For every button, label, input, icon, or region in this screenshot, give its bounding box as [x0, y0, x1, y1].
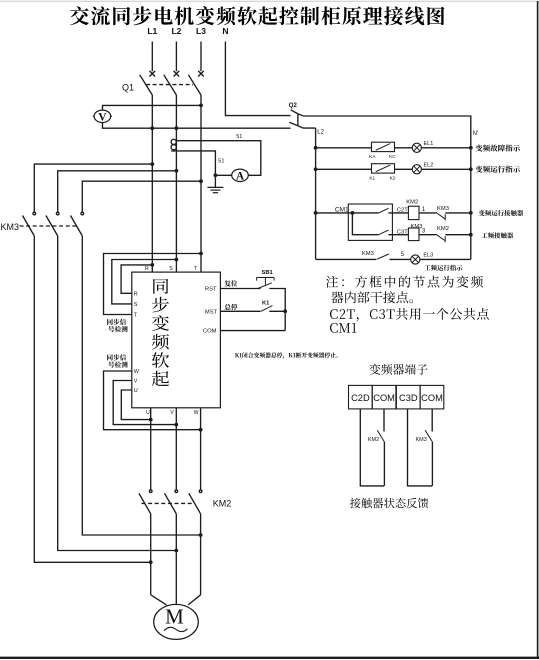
svg-text:R: R: [145, 266, 149, 272]
contactor KM3 pole blade: [71, 216, 83, 236]
junction rung2 right: [469, 167, 473, 171]
motor tilde: [164, 627, 187, 631]
switch Q2 pole1 blade: [291, 110, 298, 114]
svg-text:U: U: [134, 388, 138, 394]
breaker Q1 linkage dashed: [146, 84, 193, 86]
text 复位: [225, 280, 238, 286]
svg-text:KM3: KM3: [416, 437, 427, 443]
svg-text:C3D: C3D: [399, 393, 418, 403]
wire COM2 upper: [431, 409, 433, 432]
voltmeter PV wire top: [103, 105, 202, 110]
contact C3T blade: [379, 230, 389, 235]
junction pole1-KM2: [149, 560, 153, 564]
wire L2 feeder: [175, 42, 177, 72]
text 变频故障指示: [475, 144, 520, 151]
wire motor feed left: [151, 595, 167, 605]
switch Q2 linkage: [297, 114, 299, 126]
wire L3 drop to soft starter: [200, 95, 202, 272]
wire RST: [220, 288, 260, 290]
wire C2T contact a: [352, 212, 378, 214]
wire COM1 upper: [383, 409, 385, 432]
text 工频运行指示: [424, 265, 462, 271]
svg-text:51: 51: [236, 134, 242, 140]
junction CM1 common: [351, 211, 355, 215]
svg-text:KM2: KM2: [406, 200, 418, 206]
wire MST: [220, 310, 260, 312]
wire KM2 pole1 down: [150, 514, 152, 595]
terminal box COM: [372, 385, 396, 409]
junction V: [174, 423, 178, 427]
wire C2T out: [388, 212, 408, 214]
svg-text:CM1: CM1: [335, 206, 349, 213]
svg-text:L1: L1: [147, 26, 157, 36]
contactor KM2 pole contact: [149, 490, 152, 493]
wire rung1 a: [316, 147, 372, 149]
wire sync T: [104, 254, 202, 315]
relay coil KM2: [408, 206, 419, 219]
wire KM2 pole2 down: [175, 514, 177, 605]
text 变频运行接触器: [479, 210, 523, 216]
wire rung1 c: [421, 147, 470, 149]
wire SB1 out: [269, 289, 285, 331]
svg-text:V: V: [134, 379, 138, 385]
svg-text:L2: L2: [171, 26, 181, 36]
breaker Q1 pole blade: [164, 75, 177, 95]
svg-text:S: S: [169, 266, 173, 272]
wire COM2 lower: [431, 442, 433, 486]
title text 交流同步电机变频软起控制柜原理接线图: [70, 6, 444, 25]
junction rung1 left: [314, 146, 318, 150]
wire L1 drop to soft starter: [151, 95, 153, 272]
wire V drop: [175, 408, 177, 490]
wire rung2 a: [316, 168, 372, 170]
svg-text:Q1: Q1: [122, 83, 134, 93]
lamp EL1: [412, 143, 421, 152]
lamp EL2: [412, 165, 421, 174]
terminal box COM: [420, 385, 444, 409]
svg-text:KM3: KM3: [1, 222, 20, 232]
svg-text:S: S: [134, 302, 138, 308]
junction L3 bypass tap: [199, 179, 203, 183]
contact C2T blade: [379, 208, 389, 213]
breaker Q1 pole blade: [140, 75, 153, 95]
contactor KM2 pole blade: [165, 493, 177, 514]
wire to ammeter: [215, 174, 231, 176]
motor M body: [154, 604, 199, 639]
current transformer TA on L2: [171, 139, 176, 144]
contactor KM2 pole contact: [199, 490, 202, 493]
svg-text:A: A: [236, 171, 245, 183]
svg-text:MST: MST: [205, 310, 218, 316]
breaker Q1 pole contact cross: [150, 71, 156, 77]
wire KM3 pole2 down: [58, 236, 177, 551]
soft starter text 起: [152, 371, 169, 387]
wire rung4 c: [445, 234, 471, 236]
svg-text:KM3: KM3: [411, 224, 423, 230]
soft starter text 变: [152, 315, 169, 331]
wire C2D loop: [360, 409, 384, 486]
NC contact KM2: [436, 234, 445, 240]
text 总停: [225, 304, 238, 310]
wire bypass W: [104, 371, 201, 430]
svg-text:C2D: C2D: [351, 393, 370, 403]
junction L3-voltmeter: [199, 104, 203, 108]
relay contact K1-K2 box: [372, 164, 395, 173]
breaker Q1 pole blade: [188, 75, 201, 95]
wire L3 feeder: [200, 42, 202, 72]
contactor KM2 pole blade: [139, 493, 151, 514]
wire L2 control left bus: [315, 128, 317, 259]
svg-text:COM: COM: [203, 328, 217, 334]
soft starter text 软: [152, 352, 169, 368]
wire L2 to KM3 pole2: [58, 171, 177, 212]
VFD dry contact box: [348, 204, 392, 240]
contactor KM3 pole contact: [33, 212, 36, 215]
wire rung1 b: [395, 147, 413, 149]
wire sync S: [112, 260, 177, 304]
junction rung3 left: [314, 211, 318, 215]
junction rung4 right: [469, 233, 473, 237]
wire W drop: [200, 408, 202, 490]
wire L1 feeder: [151, 42, 153, 72]
wire bypass U: [121, 390, 150, 420]
contactor KM3 pole contact: [56, 212, 59, 215]
junction L2 voltmeter line: [175, 126, 179, 130]
soft starter U1 box: [132, 272, 221, 408]
wire sync R: [121, 265, 152, 293]
wire L2 drop to soft starter: [175, 95, 177, 272]
aux contact KM2 blade: [377, 430, 384, 442]
NO contact KM3 blade: [377, 254, 390, 260]
junction pole3-KM2: [199, 533, 203, 537]
svg-text:K2: K2: [390, 176, 396, 182]
junction L1 sync tap: [150, 263, 154, 267]
wire KM3 pole1 down: [34, 236, 150, 562]
junction ammeter-ground: [214, 173, 218, 177]
wire rung2 b: [395, 168, 413, 170]
svg-text:L3: L3: [196, 26, 206, 36]
switch Q2 pole1 out: [298, 114, 303, 116]
svg-text:51: 51: [218, 159, 224, 165]
wire COM1 lower: [383, 442, 385, 486]
svg-text:SB1: SB1: [262, 270, 274, 276]
wire L1 to KM3 pole1: [34, 164, 152, 212]
junction rung3 right: [469, 211, 473, 215]
text 变频器端子: [369, 364, 427, 375]
contactor KM3 pole blade: [46, 216, 58, 236]
voltmeter PV wire bottom to Q2: [103, 122, 291, 128]
ammeter PA body: [232, 169, 249, 181]
right frame line: [537, 1, 539, 659]
svg-text:C2T: C2T: [397, 208, 408, 214]
ground: [214, 175, 216, 187]
terminal box C3D: [396, 385, 420, 409]
aux contact KM3 blade: [425, 430, 432, 442]
terminal box C2D: [349, 385, 373, 409]
contact K1 blade: [261, 306, 273, 312]
pushbutton SB1: [256, 278, 258, 281]
note line1: [326, 276, 483, 288]
contactor KM3 linkage dashed: [20, 225, 79, 227]
text 工频接触器: [482, 232, 514, 238]
text 同步信号检测 upper: [107, 319, 126, 325]
wire rung5 c: [420, 258, 471, 260]
svg-text:EL2: EL2: [424, 162, 434, 168]
wire COM: [220, 330, 285, 332]
svg-text:KM3: KM3: [437, 206, 449, 212]
switch Q2 pole2 out: [298, 126, 316, 128]
wire CM1 to C3T: [352, 213, 378, 235]
svg-text:KM2: KM2: [213, 499, 232, 509]
wire CT secondary bottom: [171, 151, 215, 175]
svg-text:KM3: KM3: [362, 251, 374, 257]
note line2: [331, 291, 413, 303]
wire U drop: [150, 408, 152, 490]
contactor KM2 linkage dashed: [142, 502, 194, 504]
wire bypass V: [113, 381, 176, 425]
wire rung5 b: [390, 258, 411, 260]
wire C3T out: [388, 234, 408, 236]
svg-text:W: W: [134, 369, 140, 375]
junction L3 sync tap: [199, 252, 203, 256]
wire KM2 pole3 down: [200, 514, 202, 595]
wire N' bus top and right: [303, 116, 470, 259]
note line4: [330, 323, 356, 333]
wire rung3 a: [316, 212, 353, 214]
svg-text:N: N: [222, 26, 228, 36]
junction L1 voltmeter line: [150, 126, 154, 130]
wire rung3 b: [419, 212, 436, 214]
NC contact KM3: [436, 212, 445, 218]
svg-text:EL3: EL3: [423, 252, 433, 258]
contactor KM3 pole contact: [81, 212, 84, 215]
svg-text:EL1: EL1: [424, 141, 434, 147]
wire motor feed right: [188, 595, 200, 605]
svg-text:K1: K1: [262, 301, 270, 307]
soft starter text 同: [153, 279, 168, 294]
wire rung2 c: [421, 168, 470, 170]
text 接触器状态反馈: [350, 498, 428, 508]
svg-text:COM: COM: [421, 393, 443, 403]
svg-text:KM2: KM2: [368, 437, 379, 443]
svg-text:Q2: Q2: [289, 103, 298, 109]
voltmeter PV body: [94, 110, 111, 122]
svg-text:N′: N′: [473, 131, 479, 137]
note line3: [330, 308, 489, 321]
wire K1 out: [269, 310, 285, 312]
wire rung5 a: [316, 258, 376, 260]
breaker Q1 pole contact cross: [198, 71, 204, 77]
wire L3 to KM3 pole3: [82, 181, 201, 212]
svg-text:M: M: [165, 605, 184, 629]
text 变频运行指示: [475, 166, 520, 173]
svg-text:L2: L2: [317, 129, 324, 135]
lamp EL3: [411, 255, 420, 264]
svg-text:R: R: [134, 292, 138, 298]
junction K1-COM: [283, 309, 287, 313]
note K1 text: [235, 352, 338, 358]
wire rung4 b: [419, 234, 436, 236]
top frame line: [0, 0, 539, 2]
svg-text:W: W: [194, 410, 199, 416]
svg-text:K1: K1: [369, 176, 375, 182]
wire N feeder to Q2: [225, 42, 290, 116]
svg-text:KM2: KM2: [437, 226, 449, 232]
soft starter text 步: [152, 297, 169, 313]
junction L1 bypass tap: [150, 162, 154, 166]
contactor KM2 pole contact: [175, 490, 178, 493]
wire C3D loop: [408, 409, 433, 486]
svg-text:C3T: C3T: [397, 229, 408, 235]
soft starter text 频: [152, 334, 169, 350]
contactor KM2 pole blade: [189, 493, 201, 514]
wire rung3 c: [445, 212, 471, 214]
svg-text:COM: COM: [373, 393, 395, 403]
junction rung2 left: [314, 167, 318, 171]
bottom frame line: [0, 657, 539, 659]
switch Q2 pole2 blade: [289, 122, 298, 126]
junction pole2-KM2: [174, 549, 178, 553]
wire KM3 pole3 down: [82, 236, 200, 535]
svg-text:V: V: [98, 112, 107, 124]
text 同步信号检测 lower: [107, 354, 126, 360]
svg-text:KA: KA: [369, 154, 376, 160]
contactor KM3 pole blade: [23, 216, 35, 236]
wire CT secondary top 51: [176, 141, 260, 176]
svg-text:RST: RST: [205, 287, 217, 293]
svg-text:KC: KC: [389, 154, 396, 160]
junction W: [199, 428, 203, 432]
relay contact KA-KC box: [372, 142, 395, 151]
breaker Q1 pole contact cross: [174, 71, 180, 77]
junction L2 sync tap: [175, 258, 179, 262]
relay coil KM3: [408, 228, 419, 241]
junction L2 bypass tap: [175, 169, 179, 173]
junction U: [149, 418, 153, 422]
junction rung1 right: [469, 146, 473, 150]
svg-text:U: U: [146, 410, 150, 416]
